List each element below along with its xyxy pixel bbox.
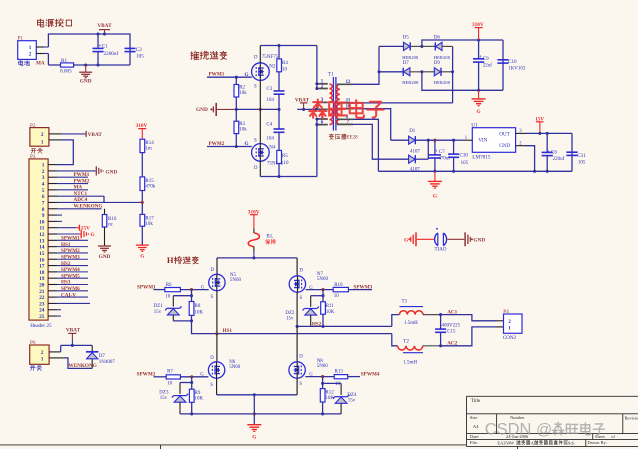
node D5-D6 (420, 45, 423, 48)
wire center tap (297, 108, 317, 110)
svg-text:G: G (477, 109, 481, 115)
svg-text:Title: Title (471, 399, 481, 404)
wire D2 output up (427, 140, 429, 159)
wire N2 drain (259, 46, 261, 63)
net label SPWM4 / pin 18 (48, 271, 57, 273)
svg-text:10: 10 (335, 382, 341, 387)
resistor R16 nc (104, 209, 106, 215)
pin 6 of T1 (317, 124, 328, 126)
wire push-pull bottom rail (260, 176, 317, 178)
svg-text:10: 10 (282, 67, 288, 72)
svg-text:C10: C10 (508, 60, 517, 65)
svg-text:VIN: VIN (478, 137, 487, 143)
diode D7 1N4007 (91, 345, 93, 368)
svg-text:10: 10 (167, 382, 173, 387)
svg-text:1m: 1m (145, 147, 152, 152)
svg-text:EA350W: EA350W (497, 440, 514, 445)
capacitor C6 220uf (546, 133, 548, 152)
svg-text:D7: D7 (99, 354, 106, 359)
wire R14-R15 (141, 153, 143, 177)
capacitor C2 (125, 47, 136, 49)
svg-text:10: 10 (334, 294, 340, 299)
svg-text:C30: C30 (460, 153, 469, 158)
node C6 top (546, 132, 549, 135)
node R5 bottom (277, 175, 280, 178)
svg-text:R9: R9 (195, 391, 201, 396)
svg-text:SPWM2: SPWM2 (137, 372, 156, 378)
wire H-bridge top rail (217, 257, 297, 259)
wire pin8 down to ground rail (353, 119, 378, 171)
svg-text:D: D (254, 56, 258, 61)
svg-text:R5: R5 (282, 154, 288, 159)
wire to D7 (379, 71, 403, 73)
pin 4 of T1 (317, 108, 328, 110)
net label SPWM1 / pin 13 (48, 239, 57, 241)
svg-text:CSDN: CSDN (485, 421, 532, 439)
svg-text:R3: R3 (239, 122, 245, 127)
svg-text:15V: 15V (81, 226, 90, 232)
svg-text:S: S (299, 382, 302, 387)
capacitor C7 470uf (434, 140, 436, 155)
svg-text:GND: GND (499, 143, 510, 149)
svg-text:S: S (254, 138, 257, 143)
svg-text:SPWM4: SPWM4 (361, 372, 380, 378)
svg-text:105: 105 (578, 161, 586, 166)
svg-text:VBAT: VBAT (88, 132, 103, 138)
svg-text:75NF75: 75NF75 (262, 55, 279, 60)
wire HS1 row (192, 321, 392, 334)
pin 3 of T1 (317, 101, 328, 103)
svg-text:C3: C3 (266, 87, 272, 92)
svg-text:DZ1: DZ1 (154, 304, 164, 309)
svg-text:D1: D1 (409, 129, 416, 134)
node rectifier input split (377, 70, 380, 73)
capacitor C31 105 (571, 133, 573, 171)
node C3/C4 midpoint (277, 108, 280, 111)
svg-text:VBAT: VBAT (66, 328, 81, 334)
svg-text:Size: Size (470, 415, 478, 420)
resistor R9 (191, 383, 193, 390)
svg-text:G: G (140, 254, 144, 260)
svg-text:24: 24 (39, 308, 45, 314)
transformer primary winding upper (329, 84, 332, 102)
ground G (below C7) (434, 171, 436, 181)
svg-text:+: + (435, 149, 438, 155)
svg-text:2: 2 (41, 350, 44, 356)
zener DZ2 15v network (322, 290, 324, 296)
svg-text:470k: 470k (145, 185, 156, 190)
svg-text:HER208: HER208 (434, 55, 451, 60)
svg-text:HS1: HS1 (223, 328, 233, 334)
net label SPWM3 wire (306, 289, 334, 291)
net label SPWM3 / pin 16 (48, 258, 57, 260)
pin 1 of T1 (317, 83, 328, 85)
diode D6 HER208 (422, 45, 435, 47)
pin 10 of T1 (337, 108, 353, 110)
power port G (P3 pin 12) (48, 233, 57, 235)
svg-text:10K: 10K (195, 397, 204, 402)
svg-text:R12: R12 (325, 390, 334, 395)
wire N4 source (259, 109, 261, 143)
transformer left bus upper (316, 46, 318, 89)
power port VBAT (P2) (85, 133, 87, 135)
svg-text:D5: D5 (403, 36, 410, 41)
net label NTC1 / pin 6 (48, 195, 57, 197)
svg-text:105: 105 (461, 161, 469, 166)
svg-text:10k: 10k (239, 128, 247, 133)
svg-text:8: 8 (42, 207, 45, 213)
svg-text:15v: 15v (348, 398, 356, 403)
svg-text:D: D (300, 268, 304, 273)
net label SPWM5 / pin 19 (48, 277, 57, 279)
wire N5 source to HS1 (216, 291, 218, 334)
svg-text:SPWM3: SPWM3 (354, 285, 373, 291)
resistor R3 (235, 109, 237, 121)
svg-text:R11: R11 (326, 304, 335, 309)
wire H-bridge source rail (217, 394, 298, 396)
wire DZ1 bottom (173, 320, 191, 322)
svg-text:VBAT: VBAT (97, 23, 112, 29)
node VBAT-P6 (71, 344, 74, 347)
transistor N4 75NF75 (252, 144, 270, 162)
svg-text:1N4007: 1N4007 (99, 360, 116, 365)
pin 2 of U1 GND (516, 145, 525, 147)
net label HS3 / pin 20 (48, 283, 57, 285)
wire N4 drain (259, 161, 261, 176)
svg-text:SPWM5: SPWM5 (61, 273, 80, 279)
section title 电源接口 (37, 19, 43, 27)
wire rectifier top output (422, 40, 503, 46)
pin 1 of P1 (36, 46, 44, 48)
power port GND (P3 pin2) (95, 166, 97, 175)
svg-text:22uf: 22uf (483, 64, 493, 69)
pin 2 of P6 (49, 351, 61, 353)
svg-text:2200uf: 2200uf (104, 50, 119, 57)
svg-text:2: 2 (29, 52, 32, 58)
node C7 top (433, 139, 436, 142)
svg-text:R4: R4 (282, 61, 288, 66)
capacitor C10 1KV103 (502, 40, 504, 90)
node N6 gate (190, 375, 193, 378)
svg-text:A4: A4 (473, 424, 479, 429)
svg-text:C4: C4 (266, 122, 272, 127)
node AC2 (439, 344, 442, 347)
svg-text:SPWM1: SPWM1 (61, 236, 80, 242)
svg-text:104: 104 (266, 98, 274, 103)
svg-text:2: 2 (41, 132, 44, 138)
wire bottom rail MA (47, 54, 49, 66)
svg-text:1: 1 (41, 140, 44, 146)
pin 2 of T1 (317, 88, 328, 90)
svg-text:CON2: CON2 (503, 335, 517, 341)
svg-text:N2: N2 (269, 65, 276, 70)
wire pin11 to D6/D9 column (353, 102, 453, 104)
svg-text:D: D (299, 355, 303, 360)
wire long ground rail (378, 170, 572, 172)
svg-text:T2: T2 (403, 339, 409, 344)
node D1/D2 join (427, 139, 430, 142)
svg-text:C15: C15 (447, 329, 456, 334)
transistor N8 5N60 (296, 326, 298, 361)
svg-text:1: 1 (29, 45, 32, 51)
node C7 rail (433, 170, 436, 173)
svg-text:D7: D7 (403, 61, 410, 66)
transistor N6 5N60 (216, 334, 218, 362)
node N7 gate (321, 288, 324, 291)
wire pin10 down to D1 (353, 109, 391, 141)
wire pin7 down to D2 (353, 124, 409, 159)
svg-text:2: 2 (508, 319, 511, 325)
wire to D5 (379, 45, 404, 47)
svg-text:13: 13 (39, 238, 45, 244)
svg-text:G: G (245, 72, 249, 78)
net label CAI-V / pin 22 (48, 296, 57, 298)
node 310V (477, 38, 480, 41)
svg-text:C31: C31 (577, 154, 586, 159)
resistor R8 (191, 296, 193, 302)
wire D6/D9 right column (452, 46, 454, 103)
pin 3 of U1 OUT (516, 132, 525, 134)
transistor N7 5N60 (296, 258, 298, 276)
node fuse-rail (252, 256, 255, 259)
pin 5 of T1 (317, 118, 328, 120)
wire R1 to C2 (74, 64, 130, 66)
resistor R11 (322, 296, 324, 302)
svg-text:R8: R8 (195, 304, 201, 309)
svg-text:3: 3 (42, 175, 45, 181)
wire R17 to ground (141, 226, 143, 245)
title block frame (467, 396, 638, 446)
svg-text:15: 15 (39, 251, 45, 257)
svg-text:HS2: HS2 (312, 322, 322, 328)
svg-text:10: 10 (39, 219, 45, 225)
node C1 top (96, 32, 99, 35)
pin 1 of U1 (463, 139, 472, 141)
svg-text:DZ2: DZ2 (285, 311, 295, 316)
svg-text:4: 4 (42, 182, 45, 188)
diode D2 4107 (409, 155, 415, 163)
svg-text:G: G (433, 193, 437, 199)
pin 8 of T1 (337, 118, 353, 120)
net label PWM2 / pin 4 (48, 183, 57, 185)
svg-text:D: D (210, 356, 214, 361)
svg-text:PWM2: PWM2 (74, 178, 90, 184)
page border bottom (0, 444, 467, 446)
ground G (H-bridge) (247, 424, 261, 426)
node AC1 (439, 313, 442, 316)
pin 1 of P6 / net WENKONG (49, 357, 64, 359)
label 开关 (P6) (30, 366, 35, 371)
svg-text:GND: GND (473, 238, 485, 244)
capacitor C1 (97, 34, 99, 48)
svg-text:10K: 10K (195, 311, 204, 316)
pin 2 of P2 to VBAT (49, 133, 61, 135)
node C30 top (452, 139, 455, 142)
svg-text:105: 105 (136, 53, 144, 59)
node D7-D9 (420, 70, 423, 73)
pin 11 of T1 (337, 102, 353, 104)
svg-text:G: G (245, 141, 249, 147)
svg-text:GND: GND (99, 254, 111, 260)
svg-text:H: H (167, 255, 174, 265)
svg-text:G: G (252, 435, 256, 441)
svg-text:HS2: HS2 (61, 261, 71, 267)
power port 15V (P3 pin 11) (48, 227, 57, 229)
svg-text:of: of (611, 434, 615, 439)
svg-text:16: 16 (39, 257, 45, 263)
svg-text:nc: nc (108, 222, 114, 227)
wire rectifier bottom output (422, 72, 503, 91)
svg-text:21: 21 (39, 289, 45, 295)
svg-text:1KV103: 1KV103 (508, 66, 526, 71)
pin 2 of P1 (36, 53, 44, 55)
section title 推挽逆变 (191, 51, 199, 59)
svg-text:HS1: HS1 (61, 242, 71, 248)
svg-text:1.5mH: 1.5mH (404, 321, 418, 326)
svg-text:10K: 10K (325, 396, 334, 401)
pin 24 of P3 (48, 309, 57, 311)
pin 2 of P3 to GND port (48, 170, 57, 172)
svg-text:LM7815: LM7815 (472, 155, 491, 161)
label 开关 (P2) (31, 149, 36, 154)
svg-text:7: 7 (42, 200, 45, 206)
node ADC4 divider junction (141, 201, 144, 204)
svg-text:SPWM1: SPWM1 (137, 285, 156, 291)
svg-text:2: 2 (42, 169, 45, 175)
svg-text:GND: GND (106, 169, 118, 175)
svg-text:T1: T1 (328, 72, 334, 78)
node R4 top (277, 44, 280, 47)
svg-text:12: 12 (39, 232, 45, 238)
svg-text:5N60: 5N60 (229, 365, 241, 370)
svg-text:Number: Number (510, 415, 525, 420)
svg-text:1: 1 (41, 357, 44, 363)
svg-text:S: S (211, 295, 214, 300)
capacitor TIAO (435, 233, 438, 246)
svg-text:10K: 10K (326, 310, 335, 315)
net label SPWM6 / pin 21 (48, 290, 57, 292)
wire R15 to junction (141, 191, 143, 215)
svg-text:DZ3: DZ3 (159, 391, 169, 396)
wire HS2 row (297, 325, 392, 327)
svg-text:18: 18 (39, 270, 45, 276)
transistor N5 5N60 (216, 258, 218, 274)
transformer left bus lower (316, 119, 318, 177)
node HS1 (215, 332, 218, 335)
svg-text:10: 10 (165, 294, 171, 299)
gray watermark CSDN (485, 421, 605, 439)
label 变压器EE28 (329, 134, 333, 139)
svg-text:S: S (300, 296, 303, 301)
ground GND (below R16) (98, 245, 111, 247)
node ground stem (253, 412, 256, 415)
pin 7 of T1 (337, 123, 353, 125)
svg-text:5N60: 5N60 (317, 364, 329, 369)
svg-text:25: 25 (39, 314, 45, 320)
node C9 bottom (477, 89, 480, 92)
svg-text:C2: C2 (136, 47, 142, 53)
svg-text:PWM1: PWM1 (74, 172, 90, 178)
svg-text:TIAO: TIAO (435, 248, 447, 253)
svg-text:NTC1: NTC1 (74, 191, 88, 197)
svg-text:N4: N4 (269, 146, 276, 151)
pin 25 of P3 (48, 315, 57, 317)
svg-text:104: 104 (266, 136, 274, 141)
svg-text:MA: MA (74, 185, 83, 191)
zener DZ1 15v network (191, 290, 193, 296)
transformer primary winding lower (329, 109, 332, 124)
svg-text:5N60: 5N60 (317, 277, 329, 282)
resistor R5 (277, 150, 282, 163)
svg-text:15v: 15v (160, 396, 168, 401)
svg-text:MA: MA (36, 60, 45, 66)
node 15V (538, 132, 541, 135)
svg-text:SPWM3: SPWM3 (61, 254, 80, 260)
pin 23 of P3 (48, 302, 57, 304)
svg-text:Revisio: Revisio (625, 416, 638, 421)
svg-text:23: 23 (39, 301, 45, 307)
svg-text:R7: R7 (167, 370, 173, 375)
net label SPWM2 / pin 15 (48, 252, 57, 254)
svg-text:@: @ (536, 422, 552, 439)
svg-text:9: 9 (42, 213, 45, 219)
capacitor C30 105 (453, 140, 455, 154)
wire mid GND row (234, 108, 279, 110)
red watermark 森旺电子 (309, 99, 383, 117)
net label ADC4 / pin 7 long wire to divider (48, 201, 57, 203)
resistor R15 (140, 177, 145, 191)
svg-text:HER208: HER208 (402, 55, 419, 60)
net label MA / pin 5 (48, 189, 57, 191)
svg-text:ADC4: ADC4 (74, 197, 88, 203)
wire AC1 to P4 (441, 315, 496, 321)
svg-text:22: 22 (39, 295, 45, 301)
node C30 rail (452, 170, 455, 173)
svg-text:G: G (404, 238, 408, 244)
svg-text:EE28: EE28 (347, 136, 359, 141)
zener DZ4 15v network (322, 377, 324, 384)
svg-text:19: 19 (39, 276, 45, 282)
resistor R14 (140, 139, 145, 152)
svg-text:0.005: 0.005 (60, 68, 72, 74)
svg-text:File:: File: (470, 440, 478, 445)
wire pin6 corner down to ADC4 row (103, 196, 105, 202)
svg-text:5N60: 5N60 (230, 278, 242, 283)
svg-text:B1,: B1, (266, 235, 273, 240)
wire AC2 to P4 (441, 327, 496, 346)
svg-text:GND: GND (196, 107, 208, 113)
svg-text:220uf: 220uf (553, 157, 565, 162)
svg-text:D: D (254, 166, 258, 171)
wire P6 top row (61, 344, 92, 346)
svg-text:6: 6 (42, 194, 45, 200)
svg-text:OUT: OUT (499, 131, 510, 137)
wire lower gate-protect rail (180, 413, 341, 415)
wire VBAT top rail (48, 34, 130, 65)
svg-text:SPWM2: SPWM2 (61, 248, 80, 254)
transformer core (332, 77, 334, 131)
node N8 gate (321, 375, 324, 378)
svg-text:G: G (91, 232, 95, 238)
wire push-pull top rail (260, 45, 317, 47)
svg-text:R16: R16 (108, 217, 117, 222)
net label HS2 / pin 17 (48, 265, 57, 267)
net label W.ENKONG / pin 8 (48, 208, 57, 210)
svg-text:Drawn By:: Drawn By: (588, 440, 607, 445)
svg-text:17: 17 (39, 264, 45, 270)
node GND junction (84, 63, 87, 66)
svg-text:DZ4: DZ4 (347, 393, 357, 398)
